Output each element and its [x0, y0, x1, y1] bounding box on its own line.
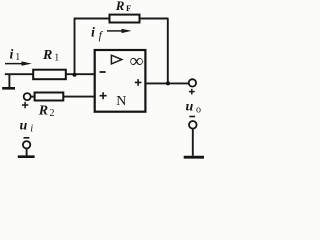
junction: node at inverting input [73, 73, 77, 77]
label RF [115, 0, 131, 13]
pin: minus polarity mark ui [24, 137, 30, 139]
terminal: ui minus terminal circle [23, 141, 30, 148]
current arrow i1 [5, 61, 32, 65]
pin: plus polarity mark uo [189, 89, 195, 95]
svg-text:u: u [20, 119, 28, 134]
op-amp ideal triangle symbol [111, 55, 121, 64]
pin: output plus sign [135, 79, 142, 86]
label R2 [38, 104, 55, 120]
pin: non-inverting input plus sign [100, 92, 107, 99]
label R1 [42, 48, 59, 64]
ground: left input ground [2, 74, 15, 88]
wire: left segment to R1 [5, 73, 33, 75]
svg-text:u: u [186, 100, 194, 115]
resistor R2 [35, 93, 64, 101]
resistor RF [110, 15, 140, 23]
svg-text:o: o [196, 105, 201, 116]
current arrow if [107, 29, 132, 33]
svg-text:R: R [38, 104, 48, 119]
wire: RF to right corner [140, 18, 169, 20]
ground: right bottom ground [184, 129, 204, 158]
svg-text:∞: ∞ [130, 51, 144, 72]
label uo [186, 100, 202, 116]
label i1 [10, 48, 21, 64]
svg-text:N: N [116, 94, 126, 109]
label if [91, 26, 104, 43]
label N op-amp designator [116, 94, 126, 109]
wire: R2 to op-amp non-inverting input [63, 96, 94, 98]
wire: R1 to op-amp inverting input [66, 73, 95, 75]
svg-text:i: i [30, 124, 33, 135]
svg-text:1: 1 [54, 52, 59, 63]
svg-text:f: f [99, 30, 104, 42]
pin: plus polarity mark ui [22, 102, 28, 108]
svg-text:1: 1 [15, 52, 20, 63]
wire: terminal to R2 [31, 96, 35, 98]
pin: inverting input minus sign [100, 71, 106, 73]
pin: minus polarity mark uo [189, 116, 195, 118]
svg-text:i: i [91, 26, 95, 41]
svg-text:R: R [42, 48, 52, 63]
terminal: uo plus terminal circle [189, 79, 196, 86]
terminal: ui plus terminal circle [24, 93, 31, 100]
svg-text:R: R [115, 0, 125, 13]
svg-text:F: F [126, 3, 131, 13]
junction: node at output [166, 81, 170, 85]
op-amp U1 box [95, 50, 146, 112]
wire: feedback right vertical [167, 19, 169, 84]
wire: top horizontal to RF [74, 18, 110, 20]
terminal: uo minus terminal circle [189, 121, 197, 129]
label ui [20, 119, 34, 135]
resistor R1 [33, 70, 66, 80]
svg-text:2: 2 [50, 108, 55, 119]
ground: left bottom ground [18, 149, 35, 157]
wire: feedback top-left vertical [74, 19, 76, 76]
op-amp infinity gain symbol [130, 51, 144, 72]
wire: output [145, 82, 188, 84]
svg-text:i: i [10, 48, 14, 63]
